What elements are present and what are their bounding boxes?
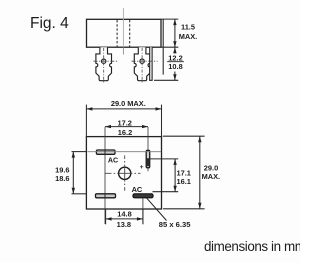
svg-text:14.8: 14.8 bbox=[117, 210, 131, 219]
dimension 29.0 MAX right height bbox=[163, 135, 205, 137]
hidden hole edge right (side view) bbox=[129, 20, 131, 47]
hole vertical centerline bbox=[124, 155, 126, 190]
dimension 12.2/10.8 pin length bbox=[174, 47, 176, 53]
dimension 17.2/16.2 terminal spacing bbox=[105, 126, 148, 128]
pin 2 faston blade (side view) bbox=[134, 47, 150, 80]
dimension 19.6/18.6 left bbox=[72, 151, 87, 153]
pin 1 centerline bbox=[103, 48, 105, 84]
pin 3 edge-on terminal bar (side view) bbox=[150, 47, 152, 80]
svg-text:10.8: 10.8 bbox=[168, 62, 182, 71]
dimension 11.5 MAX body height bbox=[174, 19, 176, 47]
centerline of package (side view) bbox=[122, 8, 124, 47]
terminal slot bottom-right (AC) bbox=[133, 194, 153, 198]
holes horizontal centerline (side view) bbox=[94, 60, 118, 62]
hole horizontal centerline bbox=[105, 172, 141, 174]
svg-text:13.8: 13.8 bbox=[117, 220, 131, 229]
extension line right slot center bbox=[147, 127, 149, 150]
svg-text:29.0 MAX.: 29.0 MAX. bbox=[111, 99, 146, 108]
svg-text:85 x 6.35: 85 x 6.35 bbox=[159, 220, 191, 229]
centerline over top-left slot bbox=[104, 149, 106, 155]
extension line body top bbox=[162, 18, 179, 20]
terminal slot right (+) bbox=[146, 150, 150, 168]
package body (side view) bbox=[87, 19, 162, 47]
svg-text:Fig. 4: Fig. 4 bbox=[30, 15, 69, 32]
extension line pin bottom bbox=[154, 79, 178, 81]
mounting hole (bottom view) bbox=[119, 167, 131, 179]
centerline tail below body (side view) bbox=[122, 47, 124, 54]
svg-text:17.2: 17.2 bbox=[118, 118, 132, 127]
dimension 14.8/13.8 bottom bbox=[105, 209, 107, 224]
terminal slot top-left (AC) bbox=[96, 150, 115, 154]
hidden hole edge left (side view) bbox=[116, 20, 118, 47]
svg-text:18.6: 18.6 bbox=[55, 174, 69, 183]
svg-text:MAX.: MAX. bbox=[202, 172, 220, 181]
dimension 29.0 MAX top width bbox=[85, 105, 87, 137]
svg-text:11.5: 11.5 bbox=[181, 23, 195, 32]
pin 1 faston blade (side view) bbox=[96, 47, 112, 80]
svg-text:dimensions in mm: dimensions in mm bbox=[204, 239, 300, 254]
svg-text:16.1: 16.1 bbox=[177, 177, 191, 186]
extension line body bottom bbox=[162, 46, 179, 48]
svg-text:AC: AC bbox=[108, 156, 118, 164]
pin 2 centerline bbox=[141, 48, 143, 84]
svg-text:12.2: 12.2 bbox=[168, 53, 182, 62]
far corner terminal edge (side view, right of body) bbox=[162, 19, 164, 74]
package body (bottom view) bbox=[86, 137, 161, 209]
svg-text:AC: AC bbox=[132, 185, 143, 194]
extension line bottom-right slot center bbox=[142, 198, 144, 224]
svg-text:16.2: 16.2 bbox=[118, 128, 132, 137]
dimension 17.1/16.1 right inner bbox=[150, 158, 178, 160]
terminal slot bottom-left bbox=[96, 194, 116, 198]
centerline vertical left (through both left slots) bbox=[104, 127, 106, 224]
svg-text:+: + bbox=[140, 164, 144, 171]
centerline over bottom-left slot bbox=[104, 193, 106, 198]
pin 1 hole bbox=[102, 59, 106, 63]
leader line to terminal size bbox=[145, 196, 167, 220]
centerline dash below right slot bbox=[147, 169, 149, 172]
svg-text:MAX.: MAX. bbox=[179, 32, 197, 41]
slot centerline horizontal (through AC slot) bbox=[88, 151, 162, 153]
pin 2 hole bbox=[140, 59, 144, 63]
